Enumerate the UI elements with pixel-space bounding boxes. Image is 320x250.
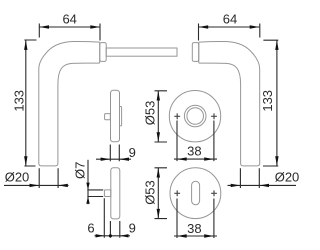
top rosette spindle stub <box>105 114 111 120</box>
spindle rod <box>106 48 177 56</box>
dimension 64 left: line <box>39 26 100 28</box>
svg-text:Ø53: Ø53 <box>143 101 158 126</box>
bottom escutcheon front view circle <box>170 168 221 219</box>
dimension 64 right: line <box>199 26 260 28</box>
top rosette profile (side view) <box>111 90 120 142</box>
svg-text:133: 133 <box>260 90 275 112</box>
dimension 6-9 bottom: line <box>95 235 131 237</box>
svg-text:133: 133 <box>11 90 26 112</box>
svg-text:Ø20: Ø20 <box>5 170 30 185</box>
screw cross left bottom <box>174 190 180 196</box>
svg-text:Ø53: Ø53 <box>143 180 158 205</box>
dimension 133 right: extension lines <box>263 40 278 166</box>
svg-text:64: 64 <box>223 11 237 26</box>
left handle collar <box>100 43 106 62</box>
right handle lever (mirrored) <box>192 41 259 165</box>
dimension Ø53 top: extension lines <box>155 91 168 142</box>
right handle collar <box>192 43 198 62</box>
svg-text:9: 9 <box>129 145 136 160</box>
top rosette front view circle <box>169 91 220 142</box>
svg-text:6: 6 <box>87 221 94 236</box>
screw cross right <box>211 113 217 119</box>
dimension Ø20 right: extension lines <box>240 168 259 188</box>
dimension Ø53 top: line <box>157 91 159 142</box>
dimension 9 bottom: arrow <box>120 234 129 237</box>
dimension Ø7: arrows (outside pointing in) <box>86 183 89 190</box>
bottom escutcheon profile (side view) <box>111 168 120 219</box>
dimension Ø20 left: line <box>4 184 69 186</box>
dimension 38 top: extension lines <box>177 121 214 162</box>
dimension 64 left: extension lines <box>39 24 100 41</box>
svg-text:Ø20: Ø20 <box>275 170 300 185</box>
handle hole outer ring <box>184 105 206 127</box>
screw cross left <box>174 113 180 119</box>
dimension 133 left: arrows <box>24 40 27 50</box>
dimension 38 top: line <box>174 158 217 160</box>
dimension 6 and 9 bottom: extension lines <box>104 198 120 238</box>
dimension 9 top: line <box>96 158 131 160</box>
dimension 64 right: extension lines <box>199 24 260 41</box>
dimension 9 top: arrows <box>101 158 111 161</box>
handle hole inner ring <box>187 108 204 125</box>
dimension Ø53 top: arrows <box>157 91 160 101</box>
shared dot <box>109 234 112 237</box>
dimension 133 left: extension lines <box>24 40 36 166</box>
dimension 9 top: extension lines <box>110 145 119 162</box>
bottom escutcheon stub <box>104 190 110 197</box>
dimension 38 bottom: extension lines <box>177 199 214 239</box>
dimension Ø20 left: extension lines <box>39 168 58 188</box>
dimension Ø20 right: arrows <box>231 184 241 187</box>
dimension 133 right: arrows <box>275 40 278 50</box>
keyhole <box>192 181 200 205</box>
dimension Ø53 bottom: extension lines <box>155 168 168 219</box>
svg-text:Ø7: Ø7 <box>72 162 87 179</box>
dimension Ø20 right: line <box>228 184 297 186</box>
svg-text:38: 38 <box>187 221 201 236</box>
top rosette collar band <box>120 107 122 126</box>
dimension 133 right: line <box>276 40 278 166</box>
dimension Ø53 bottom: arrows <box>157 168 160 178</box>
dimension 38 bottom: arrows <box>177 234 187 237</box>
dimension Ø7: extension lines <box>87 190 103 197</box>
screw cross right bottom <box>211 190 217 196</box>
dimension Ø7: line <box>87 160 89 204</box>
svg-text:38: 38 <box>187 144 201 159</box>
svg-text:9: 9 <box>129 221 136 236</box>
dimension 38 bottom: line <box>174 235 217 237</box>
dimension Ø53 bottom: line <box>157 168 159 219</box>
dimension Ø20 left: arrows <box>30 184 40 187</box>
left handle lever (side view) <box>39 41 100 165</box>
svg-text:64: 64 <box>62 11 76 26</box>
dimension 133 left: line <box>25 40 27 166</box>
dimension 64 right: arrows <box>199 25 209 28</box>
dimension 38 top: arrows <box>177 157 187 160</box>
dimension 64 left: arrows <box>39 25 49 28</box>
dimension 6 bottom: arrow <box>96 234 105 237</box>
